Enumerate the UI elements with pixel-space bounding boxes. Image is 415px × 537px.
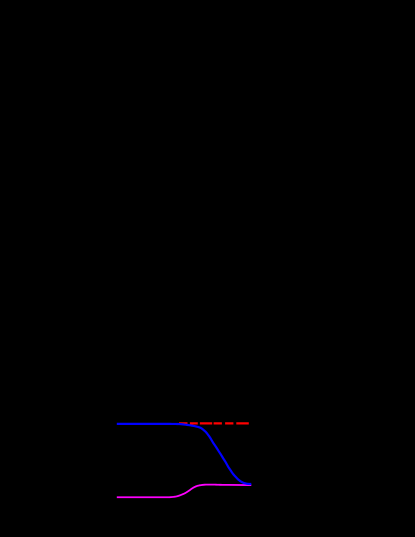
magenta curve (rising population) xyxy=(117,485,252,498)
red dashed reference line xyxy=(179,422,249,424)
blue curve (decaying population) xyxy=(117,424,252,484)
